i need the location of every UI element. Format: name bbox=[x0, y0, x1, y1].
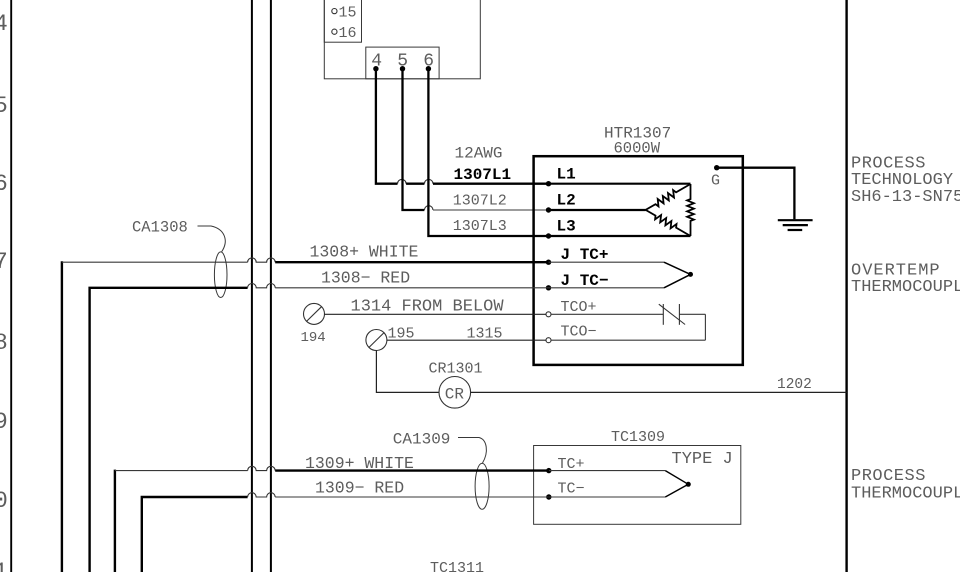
cable ellipse CA1308 bbox=[214, 252, 227, 298]
svg-text:G: G bbox=[711, 173, 720, 190]
svg-text:6000W: 6000W bbox=[614, 140, 661, 158]
wire 1315 to TCO- bbox=[387, 339, 546, 341]
terminal dot TC+ bbox=[546, 468, 551, 473]
svg-text:1314 FROM BELOW: 1314 FROM BELOW bbox=[351, 298, 505, 317]
svg-text:TC−: TC− bbox=[558, 481, 585, 498]
terminal 15 circle bbox=[332, 9, 337, 14]
svg-text:1308− RED: 1308− RED bbox=[321, 269, 410, 288]
wire 1307L3 from pin 6 bbox=[428, 69, 548, 236]
pin 4 junction dot bbox=[373, 66, 378, 71]
wire L2 to delta bbox=[549, 209, 646, 211]
svg-text:4: 4 bbox=[0, 11, 8, 37]
wire stub connector 195 bbox=[366, 330, 387, 351]
thermal switch contact bbox=[659, 304, 685, 325]
wire 1309- right thin bbox=[275, 496, 549, 498]
svg-text:1202: 1202 bbox=[777, 377, 812, 393]
svg-text:1307L2: 1307L2 bbox=[453, 193, 507, 210]
terminal dot J TC+ bbox=[546, 260, 551, 265]
svg-text:15: 15 bbox=[339, 5, 357, 22]
wire 1202 bbox=[471, 391, 847, 393]
pin 5 junction dot bbox=[400, 66, 405, 71]
svg-text:TYPE J: TYPE J bbox=[672, 450, 733, 469]
wire 1314 to TCO+ bbox=[325, 313, 547, 315]
pin 6 junction dot bbox=[426, 66, 431, 71]
heater element bottom resistor bbox=[646, 210, 691, 236]
wire stub connector 194 bbox=[304, 303, 325, 324]
svg-text:TC1309: TC1309 bbox=[611, 429, 665, 446]
svg-text:194: 194 bbox=[301, 330, 326, 346]
wire 1307L2 to L2 thin bbox=[433, 209, 549, 211]
terminal dot L3 bbox=[546, 233, 551, 238]
svg-text:16: 16 bbox=[339, 25, 357, 42]
leader CA1308 bbox=[198, 226, 226, 252]
svg-text:1308+ WHITE: 1308+ WHITE bbox=[310, 243, 419, 262]
ground symbol bbox=[778, 220, 813, 230]
cable ellipse CA1309 bbox=[475, 463, 489, 509]
right border line bbox=[845, 0, 847, 572]
wire 1308+ vertical bbox=[61, 261, 63, 572]
svg-text:THERMOCOUPLE: THERMOCOUPLE bbox=[851, 485, 960, 504]
process thermocouple element bbox=[549, 471, 691, 497]
pin box 4 5 6 bbox=[366, 47, 439, 79]
terminal sub-box 15/16 bbox=[324, 0, 361, 42]
wire duct right rail bbox=[270, 0, 272, 572]
wire 1309+ vertical bbox=[114, 470, 116, 572]
wire duct left rail bbox=[251, 0, 253, 572]
svg-text:1307L3: 1307L3 bbox=[453, 218, 507, 235]
svg-text:J TC+: J TC+ bbox=[561, 246, 609, 264]
wire 1309+ left thin segment bbox=[115, 470, 248, 472]
terminal box outer bbox=[324, 0, 480, 79]
wire 1308- vertical bbox=[90, 288, 248, 572]
heater element right resistor bbox=[687, 184, 694, 236]
terminal circle TCO- bbox=[546, 338, 551, 343]
svg-text:CA1308: CA1308 bbox=[132, 219, 188, 237]
svg-text:12AWG: 12AWG bbox=[455, 145, 503, 163]
wire L3 to delta bbox=[549, 235, 691, 237]
svg-text:PROCESS: PROCESS bbox=[851, 467, 926, 486]
heater element top resistor bbox=[646, 184, 691, 210]
svg-text:CA1309: CA1309 bbox=[393, 431, 451, 449]
svg-text:THERMOCOUPLE: THERMOCOUPLE bbox=[851, 278, 960, 297]
wire 1308+ left thin segment bbox=[62, 261, 248, 263]
terminal dot L1 bbox=[546, 181, 551, 186]
wire 1309+ right thick bbox=[275, 469, 549, 471]
wire 1307L1 from pin 4 bbox=[376, 69, 398, 184]
wire 1308+ duct hops bbox=[248, 258, 276, 262]
svg-text:8: 8 bbox=[0, 330, 8, 356]
terminal 16 circle bbox=[332, 29, 337, 34]
terminal dot L2 bbox=[546, 207, 551, 212]
terminal dot TC- bbox=[546, 494, 551, 499]
wire 1308- right thin bbox=[275, 287, 548, 289]
svg-text:CR: CR bbox=[445, 386, 465, 404]
wire 195 down to CR bbox=[376, 351, 438, 393]
svg-text:5: 5 bbox=[0, 93, 8, 119]
svg-text:0: 0 bbox=[0, 488, 8, 514]
terminal dot J TC- bbox=[546, 285, 551, 290]
wire 1307L1 to L1 bbox=[433, 183, 549, 185]
svg-text:SH6-13-SN754: SH6-13-SN754 bbox=[851, 188, 960, 207]
terminal dot G bbox=[714, 165, 719, 170]
relay coil CR1301 bbox=[439, 377, 471, 409]
svg-text:9: 9 bbox=[0, 409, 8, 435]
heater box HTR1307 bbox=[534, 156, 743, 365]
svg-text:TCO−: TCO− bbox=[561, 324, 597, 341]
wire hop L2 over pin6 wire bbox=[424, 206, 433, 210]
svg-text:L2: L2 bbox=[557, 192, 576, 210]
wire 1307L2 from pin 5 bbox=[403, 69, 425, 210]
overtemp thermocouple element bbox=[549, 262, 694, 288]
leader CA1309 bbox=[458, 438, 486, 464]
wire hop over pin5 wire bbox=[398, 179, 407, 183]
svg-text:L3: L3 bbox=[557, 218, 576, 236]
svg-text:CR1301: CR1301 bbox=[429, 361, 483, 378]
svg-text:TC1311: TC1311 bbox=[430, 560, 484, 572]
wire 1308+ right (thick) bbox=[275, 261, 548, 263]
svg-text:1: 1 bbox=[0, 559, 8, 572]
wire 1309+ duct hops bbox=[248, 466, 276, 470]
ground wire bbox=[717, 168, 795, 220]
left border line bbox=[10, 0, 12, 572]
wire 1309- vertical bbox=[142, 497, 248, 572]
wire 1307L1 mid bbox=[406, 183, 424, 185]
svg-text:TCO+: TCO+ bbox=[561, 299, 597, 316]
terminal circle TCO+ bbox=[546, 312, 551, 317]
svg-text:1307L1: 1307L1 bbox=[454, 166, 512, 184]
wire hop over pin6 wire bbox=[424, 179, 433, 183]
wire 1308- duct hops bbox=[248, 284, 276, 288]
wire 1309- duct hops bbox=[248, 493, 276, 497]
thermal switch wiring loop bbox=[551, 314, 705, 340]
svg-text:6: 6 bbox=[0, 171, 8, 197]
svg-text:1309− RED: 1309− RED bbox=[315, 479, 404, 498]
svg-text:L1: L1 bbox=[557, 166, 576, 184]
svg-text:7: 7 bbox=[0, 249, 8, 275]
wire L1 to delta bbox=[549, 183, 691, 185]
thermocouple box TC1309 bbox=[534, 446, 741, 525]
